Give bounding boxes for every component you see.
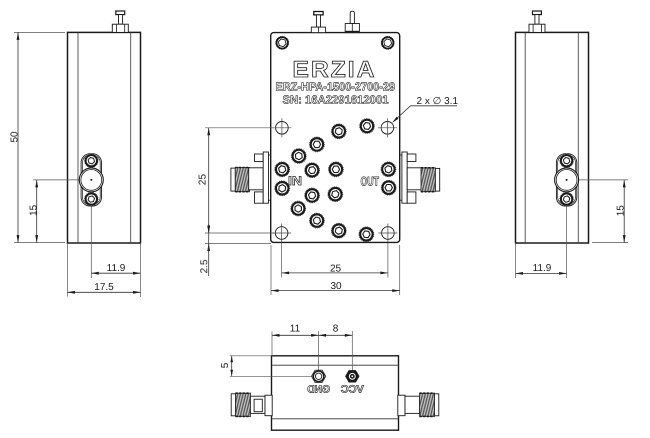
- screw M7: [328, 162, 343, 177]
- bottom view VCC pin extension line: [351, 331, 353, 376]
- screw M1: [359, 118, 374, 133]
- svg-text:GND: GND: [307, 384, 330, 396]
- annotation 2 x dia 3.1: [392, 96, 458, 123]
- svg-text:50: 50: [9, 131, 20, 143]
- screw M10: [305, 188, 320, 203]
- mounting hole front bottom-left (crosshair): [272, 224, 291, 243]
- mounting hole front bottom-right (crosshair): [378, 224, 397, 243]
- svg-text:ERZ-HPA-1500-2700-29: ERZ-HPA-1500-2700-29: [276, 81, 396, 93]
- dimension 11 (bottom view): [272, 323, 319, 356]
- svg-text:25: 25: [330, 263, 342, 274]
- svg-text:30: 30: [330, 281, 342, 292]
- svg-text:25: 25: [198, 174, 209, 186]
- dimension 25 (front left vertical): [198, 128, 276, 233]
- dimension 25 (front bottom): [282, 243, 388, 278]
- front view body: [271, 33, 400, 243]
- svg-text:17.5: 17.5: [94, 282, 114, 293]
- screw M11: [328, 187, 343, 202]
- right view top screw: [529, 11, 545, 32]
- screw M5: [275, 162, 290, 177]
- cover screw top-right: [381, 36, 394, 49]
- dimension 11.9 (right view): [516, 243, 567, 278]
- right view connector centerlines: [567, 155, 628, 278]
- GND pin (bottom view): [312, 370, 326, 382]
- dimension 5 (bottom view): [220, 356, 313, 377]
- svg-text:IN: IN: [288, 174, 302, 188]
- svg-text:11: 11: [290, 323, 301, 334]
- svg-text:VCC: VCC: [340, 384, 363, 396]
- screw M13: [291, 201, 306, 216]
- svg-text:2.5: 2.5: [199, 259, 210, 273]
- screw M8: [381, 162, 396, 177]
- bottom view body: [272, 356, 399, 430]
- dimension 2.5 (front left vertical): [199, 224, 271, 276]
- svg-text:OUT: OUT: [360, 175, 379, 189]
- left view connector centerlines: [33, 155, 91, 278]
- bottom view GND pin extension line: [318, 331, 320, 376]
- screw M6: [305, 163, 320, 178]
- cover screw top-left: [276, 36, 289, 49]
- svg-text:11.9: 11.9: [533, 263, 552, 274]
- screw M15: [331, 223, 346, 238]
- svg-text:15: 15: [616, 205, 627, 217]
- screw M12: [381, 180, 396, 195]
- dimension 15 (left): [28, 180, 39, 243]
- svg-text:15: 15: [28, 204, 39, 216]
- mounting hole front top-right (crosshair): [378, 118, 397, 137]
- dimension 15 (right): [592, 180, 628, 243]
- svg-text:11.9: 11.9: [107, 263, 126, 274]
- input SMA connector (side profile, left): [231, 152, 271, 203]
- svg-text:ERZIA: ERZIA: [293, 56, 377, 82]
- dimension 17.5 (left view): [68, 243, 141, 297]
- screw M2: [331, 124, 346, 139]
- svg-text:5: 5: [220, 362, 231, 368]
- dimension 11.9 (left view): [91, 243, 140, 297]
- VCC feedthrough pin (top): [345, 11, 359, 32]
- VCC feedthrough (bottom view): [346, 371, 359, 382]
- dimension 30 (front bottom): [271, 245, 400, 295]
- screw M9: [275, 181, 290, 196]
- output SMA connector (side profile, right): [400, 152, 440, 203]
- screw M14: [309, 213, 324, 228]
- left side view body: [68, 32, 141, 243]
- dimension 8 (bottom view): [319, 323, 353, 336]
- SMA connector right view (face view): [555, 154, 579, 206]
- svg-text:SN: 16A2291612001: SN: 16A2291612001: [283, 95, 390, 107]
- screw M16: [359, 227, 374, 242]
- mounting hole front top-left (crosshair): [272, 118, 291, 137]
- GND pin (top): [311, 12, 325, 33]
- screw M4: [291, 148, 306, 163]
- SMA connector left view (face view): [79, 154, 103, 206]
- left view top screw: [112, 11, 128, 32]
- bottom view right SMA connector: [398, 393, 439, 416]
- svg-text:2 x ∅ 3.1: 2 x ∅ 3.1: [417, 96, 459, 107]
- right side view body: [516, 32, 589, 243]
- svg-text:8: 8: [333, 323, 339, 334]
- bottom view left SMA connector: [231, 393, 272, 416]
- dimension 50 (left): [9, 32, 65, 242]
- screw M3: [309, 137, 324, 152]
